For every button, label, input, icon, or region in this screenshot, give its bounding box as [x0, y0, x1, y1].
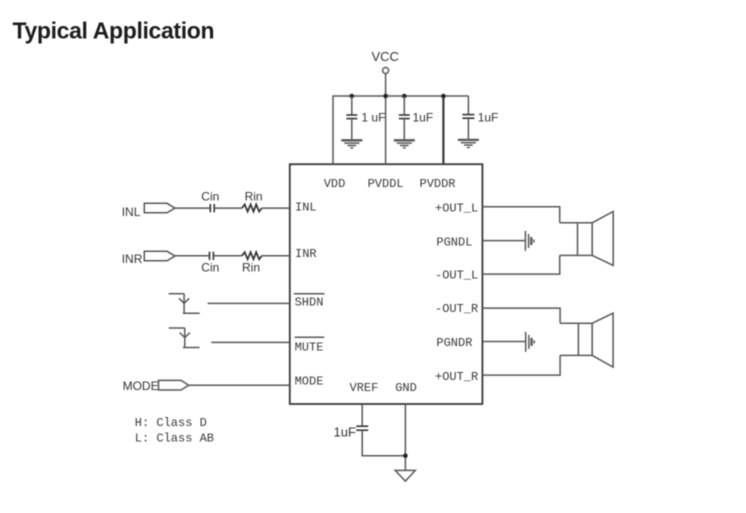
connector MODE	[159, 380, 189, 390]
svg-text:INR: INR	[122, 252, 143, 266]
op-amp U1 IC body	[290, 164, 483, 404]
wire INR to Cin	[175, 255, 210, 257]
wire PGNDR	[482, 341, 525, 343]
wire +OUT_L	[482, 207, 559, 223]
wire Cin to Rin right ch	[213, 255, 242, 257]
wire VREF down	[361, 404, 363, 426]
ground under C1	[341, 140, 362, 148]
ground under C3	[458, 140, 479, 148]
ground PGNDR (rotated)	[526, 332, 535, 352]
svg-text:INR: INR	[295, 247, 317, 261]
junction dot rail VCC	[383, 94, 388, 99]
capacitor VREF 1uF	[356, 426, 368, 430]
junction dot rail C2	[402, 94, 407, 99]
resistor Rin (left)	[242, 204, 262, 211]
svg-text:Cin: Cin	[201, 261, 219, 275]
capacitor Cin (right ch)	[210, 252, 214, 260]
svg-text:GND: GND	[395, 381, 417, 395]
svg-text:1uF: 1uF	[413, 111, 434, 125]
speaker SPK2	[560, 313, 613, 367]
svg-text:SHDN: SHDN	[295, 295, 324, 309]
capacitor C1 1uF	[346, 96, 357, 139]
svg-text:VCC: VCC	[372, 49, 399, 64]
wire -OUT_L	[482, 255, 559, 274]
wire VDD drop	[332, 95, 334, 164]
wire MODE to pin	[189, 384, 290, 386]
wire PGNDL	[482, 240, 525, 242]
svg-text:PVDDR: PVDDR	[420, 177, 456, 191]
svg-text:Cin: Cin	[201, 189, 219, 203]
svg-text:+OUT_R: +OUT_R	[435, 370, 478, 384]
VCC terminal circle	[383, 68, 389, 74]
svg-text:-OUT_R: -OUT_R	[435, 302, 478, 316]
junction dot GND	[403, 453, 408, 458]
svg-text:PGNDR: PGNDR	[436, 336, 472, 350]
wire -OUT_R	[482, 308, 560, 323]
speaker SPK1	[560, 212, 614, 266]
wire to SHDN pin	[208, 302, 290, 304]
svg-text:MUTE: MUTE	[295, 340, 324, 354]
ground PGNDL (rotated)	[525, 231, 534, 251]
wire VCC vertical to PVDDL pin	[385, 74, 387, 165]
connector INR	[144, 251, 175, 260]
switch S1 (SHDN control)	[169, 294, 200, 314]
ground under C2	[394, 140, 415, 148]
svg-text:+OUT_L: +OUT_L	[435, 202, 478, 216]
wire supply rail	[333, 95, 468, 97]
svg-text:1 uF: 1 uF	[361, 111, 385, 125]
junction dot rail C1	[350, 94, 355, 99]
svg-text:INL: INL	[122, 205, 141, 219]
svg-text:INL: INL	[295, 200, 317, 214]
svg-text:-OUT_L: -OUT_L	[435, 269, 478, 283]
svg-text:PGNDL: PGNDL	[436, 236, 472, 250]
svg-text:VDD: VDD	[324, 177, 346, 191]
svg-text:Typical Application: Typical Application	[13, 18, 215, 44]
svg-text:Rin: Rin	[242, 261, 260, 275]
connector INL	[144, 203, 175, 213]
switch S2 (MUTE control)	[169, 328, 200, 348]
ground GND triangle	[395, 470, 415, 481]
wire VREF cap to GND net	[362, 430, 405, 456]
resistor Rin (right ch)	[242, 252, 262, 259]
wire +OUT_R	[482, 355, 560, 375]
svg-text:MODE: MODE	[295, 374, 324, 388]
capacitor C2 1uF	[399, 96, 410, 139]
junction dot rail PVDDR	[441, 94, 446, 99]
capacitor Cin (left)	[210, 204, 214, 212]
wire PVDDR drop (thick)	[442, 96, 444, 164]
svg-text:L: Class AB: L: Class AB	[135, 431, 214, 445]
svg-text:VREF: VREF	[350, 381, 379, 395]
svg-text:MODE: MODE	[123, 379, 159, 393]
svg-text:PVDDL: PVDDL	[368, 177, 404, 191]
svg-text:H: Class D: H: Class D	[135, 416, 207, 430]
overline SHDN	[294, 293, 325, 295]
overline MUTE	[295, 336, 325, 338]
svg-text:Rin: Rin	[245, 189, 263, 203]
wire to MUTE pin	[211, 341, 290, 343]
wire GND down	[404, 404, 406, 470]
wire INL to Cin	[175, 207, 210, 209]
svg-text:1uF: 1uF	[478, 111, 499, 125]
wire Rin to INL pin	[262, 207, 290, 209]
wire Rin to INR pin	[262, 255, 290, 257]
capacitor C3 1uF	[462, 96, 474, 139]
svg-text:1uF: 1uF	[334, 425, 356, 440]
wire Cin to Rin	[214, 207, 242, 209]
